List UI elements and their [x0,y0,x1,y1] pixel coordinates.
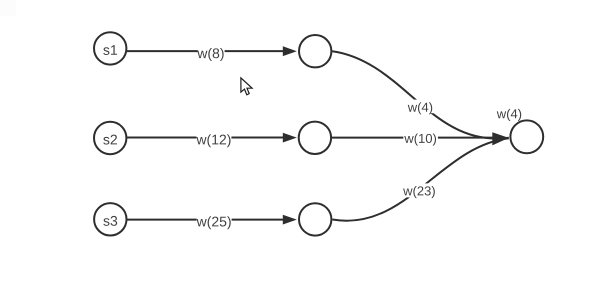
label w(4) at output node [497,109,521,121]
node out (output) [510,120,543,153]
mouse cursor [241,78,252,95]
label w(25) on edge s3->h3 [197,213,232,228]
arrowhead edge s2->h2 [283,133,297,143]
top-left pale square [0,0,16,16]
arrowhead edge s3->h3 [283,215,297,225]
node s2 [94,122,126,154]
wire curve h3->out [332,138,508,220]
label w(4) on curve h1->out [406,100,434,114]
wire edge s2->h2 [112,137,285,139]
wire edge s3->h3 [112,219,285,221]
node s1 [94,32,126,64]
label w(10) on edge h2->out [403,131,438,146]
wire edge h2->out [332,137,500,139]
node h3 (hidden layer bottom) [299,203,331,235]
label w(23) on curve h3->out [403,183,436,197]
node h2 (hidden layer middle) [299,122,331,154]
node s3 [94,203,126,235]
label w(8) on edge s1->h1 [198,45,225,60]
label w(12) on edge s2->h2 [196,131,231,146]
wire curve h1->out [332,51,509,138]
arrowhead at output node (merged) [492,132,509,145]
wire edge s1->h1 [112,50,285,52]
arrowhead edge s1->h1 [283,46,297,56]
node h1 (hidden layer top) [299,35,331,67]
